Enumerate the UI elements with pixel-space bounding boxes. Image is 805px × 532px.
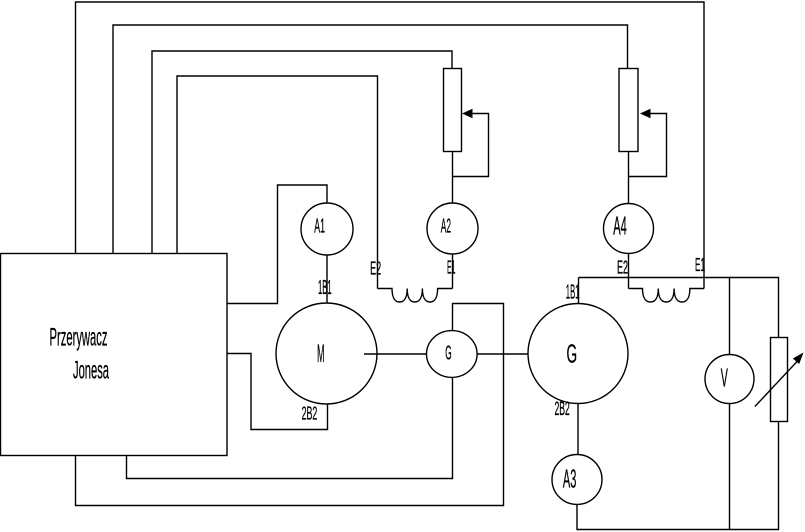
ammeter A1 xyxy=(301,203,353,255)
potentiometer (left) wiper wire xyxy=(453,114,489,177)
wire: shaft M to small G xyxy=(364,353,427,355)
wire: net 2 box top to right potentiometer top xyxy=(113,25,628,254)
potentiometer (left) wiper arrowhead xyxy=(462,109,473,118)
wire: net 4 box top to E2 of left coil xyxy=(177,76,378,289)
ammeter A2 xyxy=(427,203,478,254)
inductor (left field winding) xyxy=(378,289,453,303)
svg-text:A3: A3 xyxy=(563,463,577,493)
wire: box bottom to small G top loop xyxy=(76,304,504,506)
wire: top bus from big G to variable resistor xyxy=(579,278,779,338)
wire: big G bottom (2B2) to A3 xyxy=(577,404,579,455)
wire: bus tap down to voltmeter V xyxy=(729,278,731,355)
svg-text:Przerywacz: Przerywacz xyxy=(50,324,108,352)
svg-text:G: G xyxy=(445,342,451,365)
svg-text:2B2: 2B2 xyxy=(302,403,318,424)
svg-text:M: M xyxy=(317,340,325,368)
wire: box right to M bottom (2B2) xyxy=(227,354,328,430)
svg-text:E1: E1 xyxy=(695,255,705,275)
generator G (main) xyxy=(528,304,628,404)
box Przerywacz Jonesa xyxy=(1,254,228,456)
potentiometer (left) body xyxy=(444,69,462,152)
wire: big G top (1B1) to bus xyxy=(578,278,580,304)
generator G (small, exciter) xyxy=(427,331,478,378)
svg-text:E2: E2 xyxy=(370,258,381,278)
variable resistor body xyxy=(771,338,788,422)
svg-text:V: V xyxy=(721,363,728,393)
wire: net 1 box top to E1 of right coil xyxy=(76,2,705,289)
svg-text:1B1: 1B1 xyxy=(566,281,580,303)
svg-text:A2: A2 xyxy=(441,216,451,238)
ammeter A4 xyxy=(604,204,654,254)
svg-text:E2: E2 xyxy=(617,258,628,278)
svg-text:G: G xyxy=(567,339,578,369)
potentiometer (right) bottom wire to A4 xyxy=(628,152,630,204)
svg-text:Jonesa: Jonesa xyxy=(73,357,109,385)
variable resistor arrowhead xyxy=(793,353,804,365)
voltmeter V xyxy=(705,355,754,404)
variable resistor arrow line xyxy=(755,361,798,407)
motor M xyxy=(276,303,377,404)
wire: A2 bottom to E1 stub of left coil xyxy=(452,254,454,289)
wire: voltmeter V bottom to bottom bus xyxy=(729,404,731,530)
wire: box right to A1 top xyxy=(227,185,327,304)
potentiometer (right) wiper wire xyxy=(629,114,667,177)
svg-text:E1: E1 xyxy=(447,258,455,278)
wire: A3 bottom along page bottom to variable resistor bottom xyxy=(577,422,779,530)
svg-text:A4: A4 xyxy=(613,211,627,241)
wire: shaft small G to big G xyxy=(477,353,528,355)
wire: box bottom to small G bottom xyxy=(127,377,453,479)
potentiometer (left) bottom wire to A2 xyxy=(452,152,454,204)
wire: A1 bottom to M top (1B1) xyxy=(326,255,328,304)
wire: A4 bottom to bus / E2 stub of right coil xyxy=(628,254,630,289)
inductor (right field winding) xyxy=(629,289,705,303)
svg-text:2B2: 2B2 xyxy=(555,399,570,420)
ammeter A3 xyxy=(552,455,602,505)
svg-text:A1: A1 xyxy=(314,216,325,238)
potentiometer (right) wiper arrowhead xyxy=(640,109,651,118)
potentiometer (right) body xyxy=(619,69,638,152)
svg-text:1B1: 1B1 xyxy=(318,277,332,299)
wire: net 3 box top to left potentiometer top xyxy=(152,51,452,254)
